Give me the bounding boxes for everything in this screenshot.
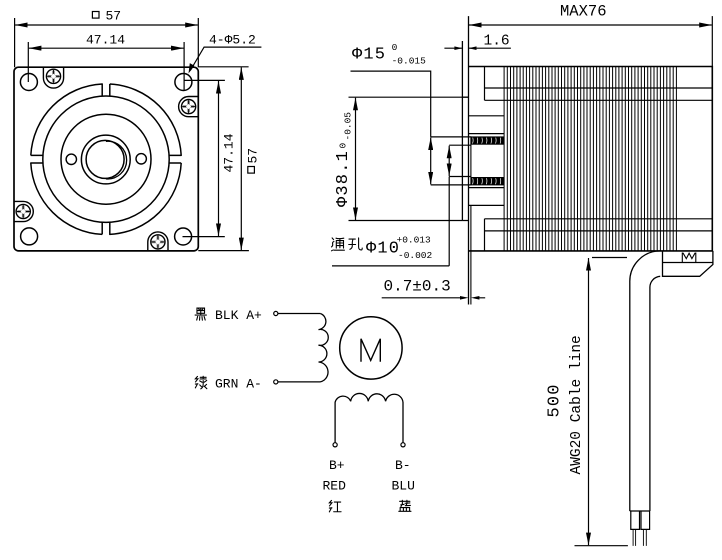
motor circle M (340, 317, 402, 379)
terminal box inner line (663, 262, 713, 264)
svg-text:500: 500 (546, 383, 565, 417)
svg-text:0: 0 (338, 143, 349, 149)
shaft bore circle Phi10 (86, 140, 124, 178)
terminal dot A- (274, 380, 278, 384)
shaft boss circle Phi15 (81, 135, 130, 184)
mounting hole bottom-left Phi5.2 (21, 228, 38, 245)
terminal dot A+ (274, 311, 278, 315)
mounting hole bottom-right Phi5.2 (175, 228, 192, 245)
svg-text:1.6: 1.6 (484, 34, 510, 50)
svg-text:MAX76: MAX76 (560, 3, 607, 21)
dim 47.14 right extension lines (183, 80, 225, 236)
dim through-hole phi10 text (332, 238, 345, 251)
svg-text:+0.013: +0.013 (397, 235, 432, 246)
pilot circle Phi38.1 (inner slot boundary) (43, 96, 169, 222)
svg-text:AWG20 Cable line: AWG20 Cable line (569, 335, 585, 474)
label GRN A- text (195, 376, 206, 389)
dim sq57 top dimension line (15, 24, 198, 26)
hollow shaft wall section lower (471, 177, 504, 185)
shaft end face line (with extension down for 0.7 dim) (470, 136, 472, 304)
dim 47.14 right dimension line (218, 81, 220, 236)
label LAN blue character (399, 500, 411, 511)
raised face circle (61, 114, 151, 204)
svg-text:GRN A-: GRN A- (215, 377, 262, 392)
dim phi38.1 dimension line (355, 98, 357, 220)
screw top (46, 69, 60, 83)
lead wire insulated ends (631, 511, 650, 529)
side body outline (469, 67, 713, 251)
dim phi10 leader to text (332, 177, 449, 266)
terminal box outline (663, 251, 713, 276)
wire A+ (278, 313, 320, 315)
dim 500 extension lines (575, 258, 628, 546)
dim 1.6 dimension line (444, 47, 511, 49)
svg-text:Φ10: Φ10 (366, 240, 400, 259)
svg-text:0: 0 (392, 42, 398, 53)
svg-text:57: 57 (246, 148, 261, 164)
dim sq57 right extension lines (198, 67, 249, 251)
dim 500 dimension line (588, 258, 590, 545)
bare conductor tips (633, 529, 646, 546)
dim 47.14 top dimension line (29, 47, 184, 49)
dim phi15 extension lines (431, 137, 471, 185)
screw ear left (14, 201, 33, 221)
end-bell arc slots (outer arcs and end caps) (31, 84, 181, 234)
svg-text:B-: B- (395, 458, 411, 473)
svg-text:BLK A+: BLK A+ (215, 308, 262, 323)
svg-text:0.7±0.3: 0.7±0.3 (384, 278, 451, 296)
mounting hole top-right Phi5.2 (175, 74, 192, 91)
svg-text:Φ15: Φ15 (352, 46, 386, 65)
svg-text:-0.05: -0.05 (343, 112, 354, 141)
shaft chamfer arc (106, 141, 127, 179)
svg-text:47.14: 47.14 (221, 133, 236, 172)
phase A coil (319, 314, 329, 382)
svg-text:-0.015: -0.015 (392, 56, 427, 67)
label 4-phi5.2 leader (190, 47, 261, 70)
svg-text:B+: B+ (329, 458, 345, 473)
dim phi15 leader (351, 71, 431, 137)
dim phi10 extension lines (449, 145, 471, 176)
dim sq57 right dimension line (240, 67, 242, 250)
right face hole (136, 154, 146, 164)
side rear edge extension for MAX76 (711, 16, 713, 66)
terminal clip detail (682, 253, 696, 263)
dim sq57 top text (92, 12, 99, 19)
label BLK A+ text (195, 308, 206, 320)
svg-text:4-Φ5.2: 4-Φ5.2 (209, 33, 256, 48)
screw ear bottom (148, 232, 168, 251)
left face hole (66, 154, 76, 164)
svg-text:47.14: 47.14 (86, 33, 125, 48)
lamination stack hatching (504, 67, 676, 251)
screw ear top (43, 67, 63, 88)
svg-text:-0.002: -0.002 (398, 250, 433, 261)
dim 0.7 leader (382, 297, 486, 299)
dim phi38.1 extension lines (349, 97, 463, 220)
phase B coil (335, 393, 403, 443)
svg-text:RED: RED (323, 479, 347, 494)
dim sq57 top extension lines (15, 18, 199, 67)
screw left (16, 204, 30, 218)
screw ear right (179, 97, 199, 117)
terminal dot B+ (333, 443, 337, 447)
pilot face line Phi38.1 (with extension up for 1.6 dim) (461, 41, 463, 221)
svg-text:Φ38.1: Φ38.1 (334, 150, 353, 207)
motor flange square outline (14, 67, 198, 251)
wire A- (278, 381, 320, 383)
dim sq57 right text (248, 167, 255, 174)
dim 47.14 top extension lines (28, 42, 184, 90)
dim phi10 dimension line (448, 146, 450, 176)
dim MAX76 dimension line (469, 24, 712, 26)
screw right (182, 100, 196, 114)
svg-text:57: 57 (106, 8, 122, 23)
side body front face line (with extension for MAX76 and 0.7 dims) (468, 16, 470, 304)
pilot top and bottom edges (462, 97, 468, 220)
hollow shaft wall section upper (471, 136, 504, 144)
label HONG red character (329, 500, 341, 511)
mounting hole top-left Phi5.2 (20, 74, 37, 91)
dim phi15 dimension line (430, 137, 432, 184)
stator corner lines (485, 67, 713, 251)
terminal dot B- (401, 443, 405, 447)
screw bottom (151, 235, 165, 249)
cable outline (630, 251, 660, 511)
svg-text:BLU: BLU (392, 479, 415, 494)
front bell recess lines (469, 116, 505, 206)
